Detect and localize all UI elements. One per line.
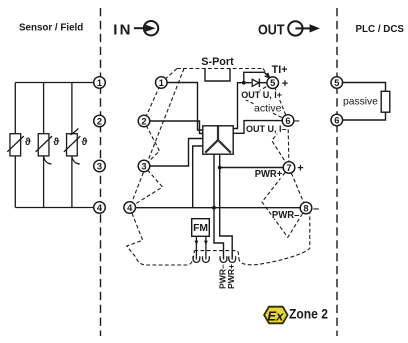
- svg-text:2: 2: [97, 116, 102, 126]
- svg-text:active: active: [254, 102, 282, 114]
- svg-text:ϑ: ϑ: [53, 137, 59, 148]
- svg-text:PLC / DCS: PLC / DCS: [356, 24, 405, 35]
- svg-text:6: 6: [334, 115, 339, 125]
- svg-text:7: 7: [286, 163, 291, 173]
- svg-text:2: 2: [141, 116, 146, 126]
- svg-text:passive: passive: [343, 97, 378, 108]
- svg-text:–: –: [313, 203, 319, 215]
- svg-text:6: 6: [285, 116, 290, 126]
- svg-text:ϑ: ϑ: [25, 137, 31, 148]
- svg-text:+: +: [282, 78, 288, 90]
- svg-text:3: 3: [97, 161, 102, 171]
- svg-text:Zone 2: Zone 2: [289, 306, 328, 321]
- svg-text:PWR+: PWR+: [226, 264, 236, 289]
- svg-text:1: 1: [97, 78, 102, 88]
- svg-text:1: 1: [159, 78, 164, 88]
- svg-text:+: +: [297, 162, 303, 174]
- svg-text:OUT: OUT: [258, 23, 285, 39]
- svg-text:4: 4: [97, 203, 103, 213]
- svg-text:PWR–: PWR–: [272, 210, 300, 221]
- svg-text:3: 3: [141, 161, 146, 171]
- svg-text:4: 4: [127, 203, 133, 213]
- svg-text:PWR+: PWR+: [255, 169, 283, 180]
- svg-text:FM: FM: [193, 223, 208, 234]
- svg-text:IN: IN: [113, 22, 130, 39]
- svg-text:ϑ: ϑ: [82, 137, 88, 148]
- svg-text:8: 8: [303, 203, 308, 213]
- svg-text:Ex: Ex: [267, 308, 284, 323]
- svg-text:OUT U, I–: OUT U, I–: [246, 124, 287, 134]
- svg-text:Sensor / Field: Sensor / Field: [19, 23, 83, 34]
- svg-text:S-Port: S-Port: [201, 56, 234, 68]
- svg-text:TI+: TI+: [272, 64, 288, 76]
- svg-text:OUT U, I+: OUT U, I+: [241, 90, 282, 100]
- svg-text:5: 5: [270, 78, 275, 88]
- svg-text:5: 5: [334, 78, 339, 88]
